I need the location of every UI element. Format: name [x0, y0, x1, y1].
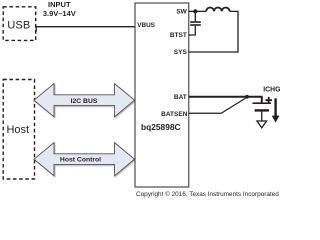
- svg-text:3.9V–14V: 3.9V–14V: [43, 9, 76, 18]
- svg-text:ICHG: ICHG: [263, 87, 280, 94]
- svg-text:USB: USB: [7, 20, 30, 32]
- svg-text:Host Control: Host Control: [60, 157, 101, 164]
- svg-text:BTST: BTST: [170, 32, 187, 39]
- svg-text:BAT: BAT: [174, 94, 187, 101]
- svg-text:VBUS: VBUS: [137, 22, 155, 29]
- svg-text:INPUT: INPUT: [48, 0, 71, 9]
- svg-text:bq25898C: bq25898C: [141, 122, 181, 132]
- svg-text:Copyright © 2016, Texas Instru: Copyright © 2016, Texas Instruments Inco…: [136, 190, 279, 198]
- svg-text:BATSEN: BATSEN: [161, 111, 188, 118]
- svg-text:Host: Host: [6, 124, 29, 136]
- svg-text:I2C BUS: I2C BUS: [71, 98, 98, 105]
- svg-text:SW: SW: [176, 8, 187, 15]
- svg-text:SYS: SYS: [174, 49, 188, 56]
